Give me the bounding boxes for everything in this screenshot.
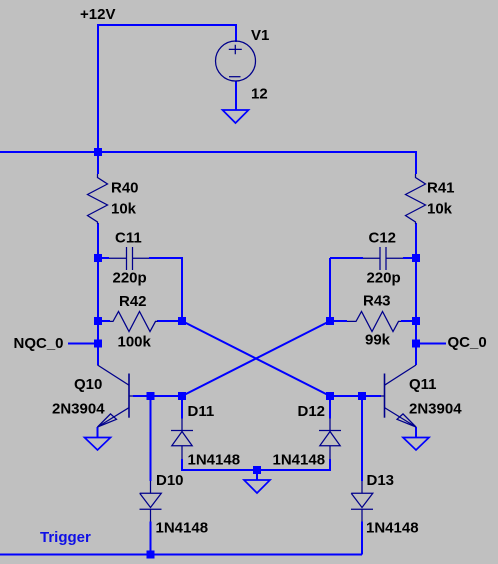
svg-text:2N3904: 2N3904 — [409, 400, 462, 417]
svg-text:D10: D10 — [156, 472, 184, 489]
svg-text:QC_0: QC_0 — [448, 334, 487, 351]
svg-text:D11: D11 — [188, 403, 215, 420]
svg-text:R40: R40 — [111, 180, 139, 197]
svg-text:1N4148: 1N4148 — [188, 452, 241, 469]
svg-text:R43: R43 — [363, 292, 391, 309]
svg-text:Q11: Q11 — [409, 376, 437, 393]
svg-text:100k: 100k — [118, 334, 152, 351]
svg-text:10k: 10k — [111, 200, 137, 217]
svg-text:220p: 220p — [113, 270, 147, 287]
svg-text:V1: V1 — [251, 27, 269, 44]
svg-text:220p: 220p — [367, 270, 401, 287]
svg-text:C11: C11 — [115, 230, 142, 247]
svg-text:R41: R41 — [427, 180, 455, 197]
svg-text:1N4148: 1N4148 — [273, 452, 326, 469]
svg-text:Q10: Q10 — [74, 376, 102, 393]
svg-text:1N4148: 1N4148 — [366, 520, 419, 537]
svg-text:C12: C12 — [369, 230, 397, 247]
svg-text:NQC_0: NQC_0 — [14, 335, 64, 352]
svg-text:Trigger: Trigger — [40, 529, 91, 546]
svg-text:10k: 10k — [427, 200, 453, 217]
svg-text:D12: D12 — [298, 403, 326, 420]
svg-text:99k: 99k — [365, 332, 391, 349]
svg-text:1N4148: 1N4148 — [156, 520, 209, 537]
svg-text:+12V: +12V — [80, 6, 115, 23]
svg-text:12: 12 — [251, 86, 268, 103]
svg-text:R42: R42 — [119, 293, 147, 310]
svg-text:D13: D13 — [367, 472, 395, 489]
svg-text:2N3904: 2N3904 — [52, 400, 105, 417]
